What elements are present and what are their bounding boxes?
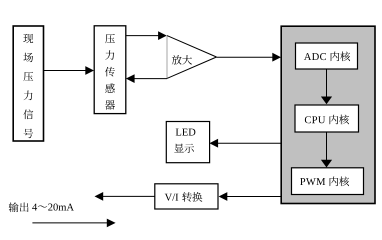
block: MCU (gray): [281, 26, 375, 203]
wire + arrow: V/I converter output: [95, 192, 155, 201]
wire + arrow: MCU to LED display: [209, 139, 281, 148]
wire + arrow: amplifier output to MCU block: [217, 53, 282, 62]
op-amp triangle: 放大 (amplifier): [167, 36, 217, 79]
box: CPU 内核 (CPU core): [295, 105, 359, 132]
box: ADC 内核 (ADC core): [296, 43, 358, 69]
wire + arrow: signal to sensor: [44, 66, 95, 75]
box: 现场压力信号 (field pressure signal): [13, 26, 43, 141]
wire + arrow: MCU (PWM) to V/I converter: [219, 192, 282, 201]
wire + arrow: CPU to PWM: [321, 132, 332, 168]
wire + arrow: feedback to sensor: [126, 74, 167, 83]
wire + arrow: ADC to CPU: [321, 69, 332, 104]
arrow: output direction: [32, 219, 115, 228]
label: 输出 4～20mA (output 4~20mA): [9, 202, 74, 212]
wire + arrow: sensor to amplifier input: [126, 31, 167, 40]
box: PWM 内核 (PWM core): [292, 168, 364, 195]
box: 压力传感器 (pressure sensor): [94, 26, 126, 114]
box: V/I 转换 (V/I converter): [155, 184, 218, 209]
box: LED 显示 (LED display): [166, 122, 209, 163]
